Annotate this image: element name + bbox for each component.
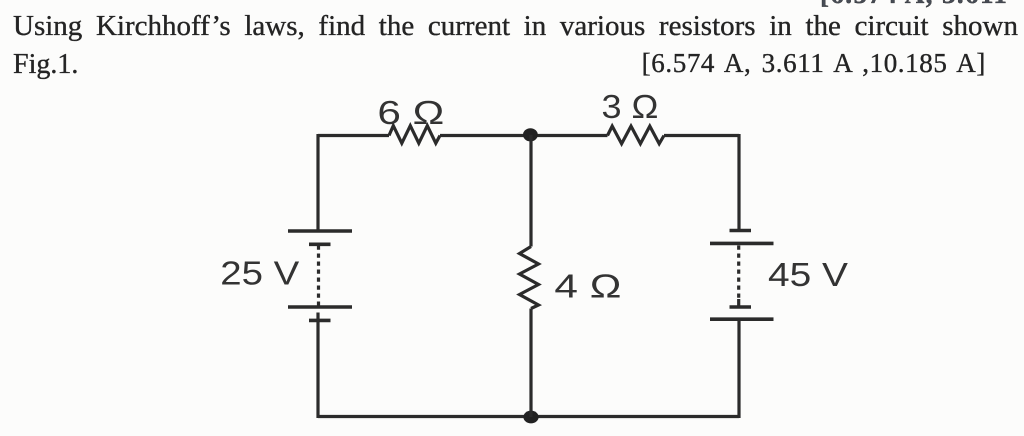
resistor R1 6 ohm (horizontal zigzag) (389, 126, 440, 144)
battery B2 internal dashed link (737, 246, 740, 301)
wire middle lower: 4-ohm down to node B (529, 309, 532, 418)
battery B1 25V long plate (top cell) (288, 229, 352, 233)
svg-text:4 Ω: 4 Ω (554, 268, 621, 305)
battery B1 25V short plate (bottom cell) (309, 319, 331, 323)
problem text line 1 (13, 12, 1018, 41)
battery B2 45V long plate (top cell) (710, 242, 774, 246)
wire bottom: left corner to right corner (318, 415, 739, 418)
wire middle upper: node A down to 4-ohm resistor (529, 135, 532, 247)
node A junction dot (top) (523, 128, 538, 141)
wire right side lower: battery B2 to bottom-right corner (737, 320, 740, 418)
resistor R3 4 ohm (vertical zigzag) (520, 247, 539, 309)
battery B1 25V short plate (top cell) (309, 243, 331, 247)
svg-text:25 V: 25 V (220, 255, 299, 292)
battery B1 internal dashed link (317, 246, 320, 307)
battery B2 45V long plate (bottom cell) (710, 317, 774, 321)
wire left side upper: corner down to battery B1 (316, 134, 319, 233)
resistor R2 3 ohm (horizontal zigzag) (608, 126, 665, 144)
battery B2 45V short plate (bottom cell) (730, 305, 752, 309)
battery B1 25V long plate (bottom cell) (288, 305, 352, 309)
wire top-left: left corner to 6-ohm resistor (318, 134, 389, 137)
wire right side upper: corner down to battery B2 (737, 134, 740, 230)
svg-text:6 Ω: 6 Ω (377, 94, 444, 131)
answer (642, 50, 986, 77)
wire left side lower: battery B1 to bottom-left corner (316, 313, 319, 419)
battery B2 45V short plate (top cell) (730, 229, 752, 233)
wire top-right: 3-ohm to right corner (664, 134, 739, 137)
svg-text:3 Ω: 3 Ω (602, 88, 659, 125)
figure caption (13, 51, 78, 79)
node B junction dot (bottom) (523, 411, 538, 424)
cropped previous answer line (top edge, clipped) (820, 0, 1008, 8)
wire top-middle: 6-ohm to 3-ohm through node A (440, 134, 608, 137)
battery B2 internal stub to short plate (737, 299, 740, 307)
svg-text:45 V: 45 V (768, 256, 848, 293)
